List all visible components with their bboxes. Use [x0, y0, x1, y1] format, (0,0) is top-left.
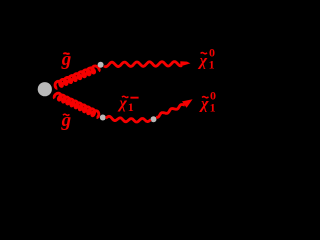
arrowhead bottom wave — [182, 99, 193, 108]
svg-text:1: 1 — [209, 57, 215, 71]
neutralino wavy line (top) — [104, 62, 182, 67]
chargino wavy line — [106, 116, 151, 122]
svg-text:χ: χ — [198, 52, 208, 69]
label gluino bottom: g tilde — [61, 110, 72, 131]
label gluino top: g tilde — [61, 49, 72, 70]
vertex dot chargino decay — [151, 116, 157, 122]
interaction blob — [38, 82, 52, 96]
neutralino wavy line (bottom right) — [156, 105, 185, 118]
svg-text:g: g — [61, 110, 72, 131]
label neutralino top right: chi tilde 1 0 — [198, 45, 215, 71]
svg-text:1: 1 — [210, 100, 216, 114]
svg-text:g: g — [61, 49, 72, 70]
arrowhead top wave — [180, 61, 190, 66]
gluino g2 curly line (lower) — [54, 93, 99, 117]
vertex dot lower — [100, 115, 106, 121]
gluino g1 curly line (upper) — [55, 66, 99, 88]
svg-text:1: 1 — [128, 100, 134, 114]
vertex dot upper — [98, 62, 104, 68]
label chargino: chi tilde 1 minus — [117, 95, 138, 114]
label neutralino bottom right: chi tilde 1 0 — [199, 88, 216, 114]
